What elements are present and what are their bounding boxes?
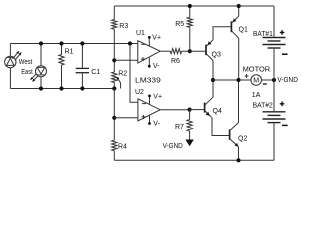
wire bottom rail	[114, 159, 274, 161]
wire upper ref to U1 noninverting input	[114, 59, 138, 61]
svg-text:West: West	[19, 59, 33, 66]
wire motor row left	[213, 79, 251, 81]
svg-text:R3: R3	[119, 23, 128, 30]
svg-text:C1: C1	[91, 69, 100, 76]
wire West branch top	[9, 44, 11, 57]
wire Q2 collector to motor node	[238, 80, 240, 123]
junction R5 top	[188, 4, 192, 8]
svg-text:R6: R6	[171, 58, 180, 65]
resistor R3	[112, 6, 117, 44]
svg-text:BAT#2: BAT#2	[253, 103, 273, 110]
svg-text:V-GND: V-GND	[277, 77, 298, 84]
svg-text:R2: R2	[118, 70, 127, 77]
svg-text:U2: U2	[135, 89, 144, 96]
resistor R7	[187, 110, 192, 140]
wire chain R3 to R2	[113, 44, 115, 73]
wire Q4 collector up to driver node	[212, 80, 214, 97]
wire East branch top	[40, 44, 42, 66]
label motor minus	[263, 83, 267, 85]
wire East branch bottom	[40, 77, 42, 89]
junction node N2	[188, 108, 192, 112]
resistor R6	[170, 49, 181, 54]
transistor Q3	[206, 40, 213, 61]
pin U2 V-	[148, 122, 151, 125]
junction driver node at motor wire	[211, 78, 215, 82]
resistor R1	[59, 44, 64, 89]
svg-text:Q3: Q3	[212, 52, 221, 59]
op-amp U2 (LM339 comparator)	[138, 96, 160, 124]
pin U2 V+	[148, 95, 151, 98]
wire node N1 to Q3 base	[190, 50, 206, 52]
wire lower sensor return bus	[10, 88, 114, 90]
junction motor left node	[236, 78, 240, 82]
svg-text:R5: R5	[175, 21, 184, 28]
junction C1 top	[80, 41, 84, 45]
wire U2 output	[160, 109, 189, 111]
photodiode D2 East	[30, 66, 46, 82]
pin U1 V-	[148, 65, 151, 68]
label BAT#1 plus	[280, 30, 285, 35]
wire Q3 emitter up to Q1 base	[213, 27, 231, 40]
wire chain R2 to R4	[113, 89, 115, 141]
transistor Q2	[230, 123, 239, 147]
junction upper reference node	[112, 58, 116, 62]
svg-text:1A: 1A	[252, 92, 261, 99]
svg-text:V-: V-	[153, 63, 160, 70]
label motor plus	[245, 74, 249, 78]
transistor Q1	[231, 16, 238, 38]
svg-text:V+: V+	[153, 94, 162, 101]
svg-text:Q1: Q1	[239, 27, 248, 34]
wire motor node down to BAT#2	[273, 80, 275, 111]
resistor R4	[112, 140, 117, 160]
svg-text:R7: R7	[175, 124, 184, 131]
label BAT#1 minus	[282, 53, 288, 55]
wire lower ref to U2 noninverting input	[114, 117, 138, 119]
wire R6 to node N1	[182, 50, 190, 52]
wire BAT#1 to motor node	[273, 49, 275, 80]
svg-text:Q2: Q2	[238, 135, 247, 142]
junction battery midpoint	[272, 78, 276, 82]
transistor Q4	[205, 97, 213, 118]
svg-text:V+: V+	[152, 35, 161, 42]
svg-text:East: East	[21, 69, 33, 76]
pin U1 V+	[148, 36, 151, 39]
capacitor C1	[76, 44, 89, 89]
junction East top	[39, 41, 43, 45]
trimmer R2	[112, 72, 121, 89]
wire Q4 emitter down to Q2 base	[212, 118, 230, 136]
junction Q1 emitter at rail	[237, 4, 241, 8]
junction lower reference node	[112, 116, 116, 120]
battery BAT#1	[263, 38, 286, 49]
motor M1	[251, 75, 262, 86]
wire Q3 collector down to driver node	[212, 61, 214, 81]
ground V-GND arrow	[185, 140, 193, 147]
wire top rail	[114, 5, 274, 7]
svg-text:V-GND: V-GND	[163, 143, 183, 150]
junction node N1	[188, 49, 192, 53]
svg-text:R1: R1	[65, 49, 74, 56]
wire U1 output	[160, 50, 170, 52]
wire sensor bus down to U2 inverting input	[130, 44, 138, 103]
wire West branch bottom	[9, 68, 11, 89]
wire motor row right	[262, 79, 275, 81]
junction East bottom	[39, 86, 43, 90]
junction Q2 emitter at bottom rail	[236, 158, 240, 162]
wire sensor bus to U1 inverting input	[10, 43, 137, 45]
wire Q2 emitter to bottom rail	[238, 147, 240, 160]
wire Q1 emitter to top rail	[238, 6, 240, 16]
wire node N2 to Q4 base	[190, 109, 205, 111]
label BAT#2 minus	[282, 124, 288, 126]
label BAT#2 plus	[280, 102, 285, 107]
svg-text:M: M	[253, 78, 259, 85]
junction chain at lower bus	[112, 86, 116, 90]
wire Q1 collector to motor node	[238, 38, 240, 80]
resistor R5	[187, 6, 192, 51]
wire BAT#2 to bottom rail	[273, 123, 275, 160]
op-amp U1 (LM339 comparator)	[138, 37, 160, 66]
junction R1 top	[59, 41, 63, 45]
svg-text:BAT#1: BAT#1	[253, 31, 273, 38]
photodiode D1 West	[5, 51, 22, 67]
junction C1 bottom	[80, 86, 84, 90]
svg-text:V-: V-	[153, 121, 160, 128]
svg-text:Q4: Q4	[213, 108, 222, 115]
wire top rail down to BAT#1	[273, 6, 275, 37]
battery BAT#2	[263, 112, 286, 123]
svg-text:U1: U1	[136, 30, 145, 37]
junction sensor bus / U2 feed	[128, 41, 132, 45]
svg-text:R4: R4	[118, 144, 127, 151]
junction R1 bottom	[59, 86, 63, 90]
svg-text:MOTOR: MOTOR	[243, 66, 271, 73]
svg-text:LM339: LM339	[135, 77, 161, 84]
